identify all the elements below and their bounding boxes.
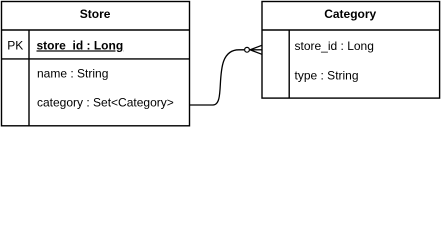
svg-text:name : String: name : String (37, 67, 108, 81)
svg-text:PK: PK (7, 38, 23, 52)
svg-text:store_id : Long: store_id : Long (295, 39, 374, 53)
svg-text:Category: Category (324, 7, 376, 21)
svg-text:category : Set<Category>: category : Set<Category> (37, 95, 174, 109)
svg-text:Store: Store (80, 7, 111, 21)
svg-text:type : String: type : String (295, 68, 359, 82)
svg-text:store_id : Long: store_id : Long (37, 38, 124, 52)
